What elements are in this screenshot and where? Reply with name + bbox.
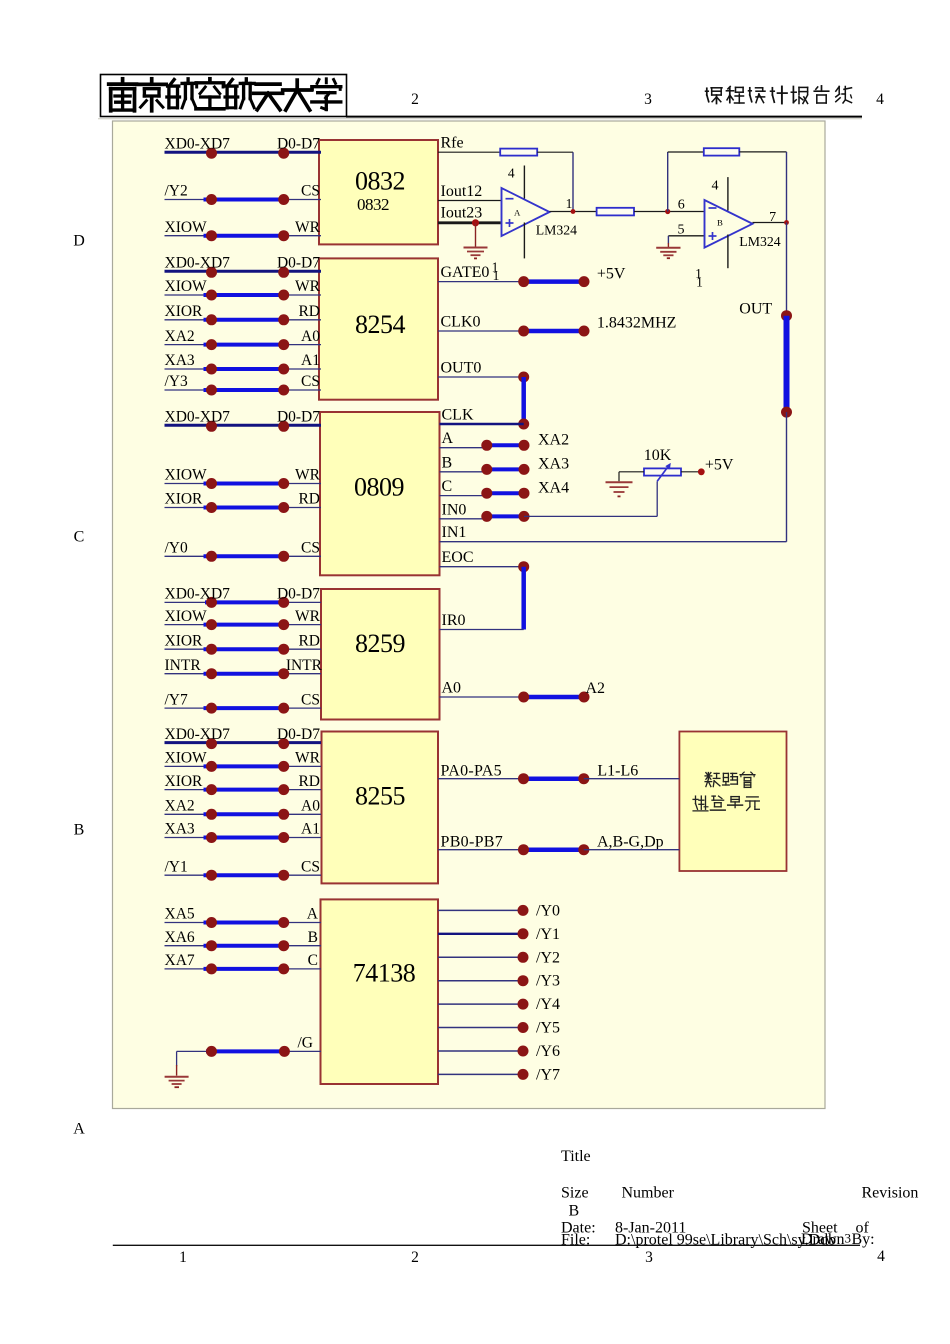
svg-text:3: 3 xyxy=(644,91,652,108)
svg-text:LM324: LM324 xyxy=(536,223,577,238)
grid column number 2 top xyxy=(411,91,419,108)
junction IN0 a xyxy=(481,511,492,522)
svg-text:WR: WR xyxy=(295,750,321,767)
grid row letter B xyxy=(74,822,85,839)
IC U6 74138 xyxy=(321,899,439,1084)
junction A0 a xyxy=(518,692,529,703)
net XIOR to U5 RD xyxy=(165,773,322,795)
pin 5 label U7B xyxy=(678,223,685,238)
pin Y0 of U6 to net /Y0 xyxy=(438,902,560,919)
svg-text:XD0-XD7: XD0-XD7 xyxy=(165,586,231,603)
net XA3 to U5 A1 xyxy=(165,821,322,843)
svg-text:A2: A2 xyxy=(586,680,606,697)
svg-text:/Y2: /Y2 xyxy=(536,949,560,966)
grid row letter D xyxy=(73,233,85,250)
svg-text:XIOW: XIOW xyxy=(165,278,208,295)
title block Drawn By xyxy=(801,1231,875,1249)
net label A,B-G,Dp xyxy=(597,833,664,850)
junction IN0 b xyxy=(519,511,530,522)
svg-text:/Y0: /Y0 xyxy=(165,540,189,557)
ground symbol GND1 xyxy=(464,248,488,259)
pin 7 output U7B xyxy=(753,222,787,224)
svg-text:D0-D7: D0-D7 xyxy=(277,409,320,426)
net XIOW to U1 WR xyxy=(165,219,322,241)
svg-text:A,B-G,Dp: A,B-G,Dp xyxy=(597,833,664,850)
svg-text:B: B xyxy=(569,1203,580,1220)
svg-text:C: C xyxy=(442,478,453,495)
wire CLK0 clock xyxy=(524,329,584,334)
net label L1-L6 xyxy=(597,763,638,780)
svg-text:XIOR: XIOR xyxy=(165,773,204,790)
net XA3 to U2 A1 xyxy=(165,352,322,374)
wire R2 to U7B minus xyxy=(634,211,705,213)
pin IN1 of U3 xyxy=(440,524,787,542)
junction PB a xyxy=(518,844,529,855)
svg-text:/Y3: /Y3 xyxy=(536,973,560,990)
pin Y3 of U6 to net /Y3 xyxy=(438,973,560,990)
grid column number 2 bottom xyxy=(411,1249,419,1266)
ground symbol GND2 xyxy=(656,248,680,258)
junction output A xyxy=(571,209,576,214)
pin CLK of U3 xyxy=(440,407,524,425)
wire PA link xyxy=(524,776,584,781)
svg-text:/Y0: /Y0 xyxy=(536,902,560,919)
junction OUT0 xyxy=(518,372,529,383)
wire R3 to OUT corner xyxy=(739,152,786,223)
wire R1 to feedback corner xyxy=(537,152,573,211)
svg-text:XA6: XA6 xyxy=(165,929,195,946)
svg-text:D0-D7: D0-D7 xyxy=(277,586,320,603)
junction +5V pot xyxy=(698,468,705,475)
svg-text:OUT0: OUT0 xyxy=(441,360,482,377)
svg-text:XA3: XA3 xyxy=(165,352,195,369)
power label +5V pot xyxy=(705,456,734,473)
pin 4 line U7A xyxy=(523,166,525,199)
svg-text:8254: 8254 xyxy=(355,310,406,339)
junction CLK xyxy=(518,419,529,430)
bus XD0-XD7 to U1 D0-D7 xyxy=(165,135,322,158)
svg-text:A0: A0 xyxy=(301,798,320,815)
junction output B xyxy=(784,220,789,225)
svg-text:1: 1 xyxy=(493,268,500,283)
IC U4 8259 xyxy=(321,589,440,720)
bus XD0-XD7 to U2 D0-D7 xyxy=(165,255,322,278)
wire OUT thick xyxy=(784,316,790,412)
svg-text:IN1: IN1 xyxy=(442,524,467,541)
net /Y1 to U5 CS xyxy=(165,858,322,880)
wire pot right to +5V xyxy=(681,471,701,473)
svg-text:XD0-XD7: XD0-XD7 xyxy=(165,726,231,743)
junction PA b xyxy=(578,773,589,784)
net XIOR to U2 RD xyxy=(165,303,322,325)
net XIOR to U3 RD xyxy=(165,491,322,513)
svg-text:B: B xyxy=(442,454,453,471)
svg-text:XIOW: XIOW xyxy=(165,467,208,484)
pin IN0 of U3 xyxy=(440,501,491,519)
svg-text:Iout12: Iout12 xyxy=(441,183,483,200)
svg-text:CS: CS xyxy=(301,858,320,875)
wire pin5 ground stem xyxy=(667,243,669,248)
svg-text:10K: 10K xyxy=(644,447,672,464)
op-amp U7A LM324 xyxy=(502,188,578,238)
svg-text:2: 2 xyxy=(411,1249,419,1266)
svg-text:CLK0: CLK0 xyxy=(441,314,481,331)
svg-text:CS: CS xyxy=(301,540,320,557)
wire PB link xyxy=(524,847,584,852)
wire IN0 to pot xyxy=(524,481,657,516)
svg-text:Revision: Revision xyxy=(862,1185,919,1202)
wire OUT to IN1 xyxy=(786,412,788,542)
svg-text:/Y3: /Y3 xyxy=(165,373,189,390)
wire EOC to IR0 xyxy=(521,567,526,630)
svg-text:XA2: XA2 xyxy=(165,798,195,815)
pin 4 label U7B xyxy=(712,179,719,194)
wire feedback B up xyxy=(668,152,704,212)
svg-text:4: 4 xyxy=(712,179,719,194)
svg-text:XA3: XA3 xyxy=(165,821,195,838)
sheet outer frame line xyxy=(98,118,862,120)
svg-text:CLK: CLK xyxy=(442,407,474,424)
svg-text:C: C xyxy=(308,952,318,969)
svg-text:8255: 8255 xyxy=(355,782,405,811)
svg-text:LM324: LM324 xyxy=(739,234,780,249)
title block Date xyxy=(561,1220,686,1237)
net label OUT xyxy=(739,301,772,318)
svg-text:+5V: +5V xyxy=(597,265,626,282)
svg-text:/G: /G xyxy=(298,1035,314,1052)
svg-text:GATE0: GATE0 xyxy=(441,264,490,281)
svg-text:EOC: EOC xyxy=(442,549,474,566)
pin 1 label U7A xyxy=(566,196,573,211)
svg-text:OUT: OUT xyxy=(739,301,772,318)
grid row letter A xyxy=(73,1121,85,1138)
net XA6 to U6 B xyxy=(165,929,322,951)
svg-text:1.8432MHZ: 1.8432MHZ xyxy=(597,315,677,332)
junction OUT top xyxy=(781,310,792,321)
svg-text:A1: A1 xyxy=(301,352,320,369)
svg-text:A: A xyxy=(73,1121,85,1138)
grid column number 3 bottom xyxy=(645,1249,653,1266)
wire IN0 link xyxy=(487,514,524,518)
junction CLK0 a xyxy=(518,326,529,337)
svg-text:XD0-XD7: XD0-XD7 xyxy=(165,255,231,272)
grid column number 4 top xyxy=(876,91,884,108)
pin 11 label U7B xyxy=(695,266,703,290)
pin 1 output U7A xyxy=(550,211,597,213)
header logo text 南京航空航天大学 xyxy=(109,79,341,111)
junction CLK0 b xyxy=(579,326,590,337)
svg-text:PA0-PA5: PA0-PA5 xyxy=(441,763,502,780)
svg-text:B: B xyxy=(308,929,318,946)
svg-text:D0-D7: D0-D7 xyxy=(277,255,320,272)
svg-text:Title: Title xyxy=(561,1148,591,1165)
svg-text:/Y5: /Y5 xyxy=(536,1020,560,1037)
svg-text:B: B xyxy=(717,217,723,227)
IC U2 8254 xyxy=(319,258,438,399)
wire PA to keypad xyxy=(584,778,680,780)
pin 4 label U7A xyxy=(508,166,515,181)
svg-text:CS: CS xyxy=(301,183,320,200)
pin A0 of U4 xyxy=(440,680,524,698)
wire OUT0 to CLK xyxy=(521,377,526,424)
pin Y6 of U6 to net /Y6 xyxy=(438,1043,560,1060)
wire GATE0 +5V xyxy=(524,279,584,284)
pin IR0 of U4 xyxy=(440,612,524,630)
svg-text:IN0: IN0 xyxy=(442,501,467,518)
pin B of U3 to net XA3 xyxy=(440,454,570,475)
svg-text:RD: RD xyxy=(298,632,320,649)
svg-text:XIOR: XIOR xyxy=(165,632,204,649)
pin 11 line U7A xyxy=(523,223,525,259)
pin C of U3 to net XA4 xyxy=(440,478,570,499)
net /Y7 to U4 CS xyxy=(165,691,322,713)
net XA5 to U6 A xyxy=(165,906,322,928)
title block Revision xyxy=(862,1185,919,1202)
svg-text:4: 4 xyxy=(877,1248,885,1265)
svg-text:XA7: XA7 xyxy=(165,952,195,969)
pin Iout23 of U1 xyxy=(438,204,501,223)
net /Y2 to U1 CS xyxy=(165,183,322,205)
net XA2 to U5 A0 xyxy=(165,798,322,820)
pin Rfe of U1 xyxy=(438,135,500,153)
svg-text:3: 3 xyxy=(645,1249,653,1266)
grid column number 3 top xyxy=(644,91,652,108)
svg-text:A: A xyxy=(442,430,454,447)
svg-text:XIOW: XIOW xyxy=(165,750,208,767)
IC U5 8255 xyxy=(322,732,439,884)
junction PA a xyxy=(518,773,529,784)
svg-text:XIOR: XIOR xyxy=(165,303,204,320)
svg-text:C: C xyxy=(74,529,85,546)
svg-text:XA2: XA2 xyxy=(165,328,195,345)
wire Iout23 to ground xyxy=(475,223,477,247)
junction GATE0 b xyxy=(579,276,590,287)
svg-text:RD: RD xyxy=(298,773,320,790)
potentiometer RP1 10K body xyxy=(644,468,681,475)
pin OUT0 of U2 xyxy=(438,360,524,378)
svg-text:2: 2 xyxy=(411,91,419,108)
pin Iout12 of U1 xyxy=(438,183,502,201)
svg-text:/Y1: /Y1 xyxy=(165,858,188,875)
title block B xyxy=(569,1203,580,1220)
svg-text:XA2: XA2 xyxy=(538,432,569,449)
svg-text:D0-D7: D0-D7 xyxy=(277,135,320,152)
svg-text:/Y1: /Y1 xyxy=(536,926,560,943)
net label 10K xyxy=(644,447,672,464)
wire output B down xyxy=(786,223,788,316)
svg-text:/Y2: /Y2 xyxy=(165,183,188,200)
net /G to U6 G enable xyxy=(177,1035,321,1057)
svg-text:/Y7: /Y7 xyxy=(536,1066,560,1083)
pin PA0-PA5 of U5 xyxy=(438,763,524,780)
net label 1.8432MHZ xyxy=(597,315,677,332)
svg-text:WR: WR xyxy=(295,219,321,236)
net XIOW to U2 WR xyxy=(165,278,322,300)
pin PB0-PB7 of U5 xyxy=(438,833,524,850)
svg-text:8259: 8259 xyxy=(355,629,405,658)
svg-text:6: 6 xyxy=(678,198,685,213)
net label A2 xyxy=(586,680,606,697)
junction Iout23 ground xyxy=(472,219,479,226)
pin Y5 of U6 to net /Y5 xyxy=(438,1020,560,1037)
svg-text:A0: A0 xyxy=(301,328,320,345)
junction node 6 xyxy=(665,209,670,214)
svg-text:RD: RD xyxy=(298,491,320,508)
net XIOR to U4 RD xyxy=(165,632,322,654)
svg-text:3: 3 xyxy=(845,1231,852,1246)
wire pot left to ground xyxy=(619,472,644,482)
net XIOW to U3 WR xyxy=(165,467,322,489)
svg-text:B: B xyxy=(74,822,85,839)
svg-text:CS: CS xyxy=(301,373,320,390)
pin CLK0 of U2 xyxy=(438,314,524,332)
ground symbol GND3 xyxy=(606,482,633,496)
pin GATE0 of U2 xyxy=(438,264,524,282)
pin 6 label U7B xyxy=(678,198,685,213)
bus XD0-XD7 to U4 D0-D7 xyxy=(165,586,322,608)
block 数码管键盘单元 xyxy=(679,732,786,872)
svg-text:7: 7 xyxy=(769,210,776,225)
svg-text:Iout23: Iout23 xyxy=(441,204,483,221)
junction GATE0 a xyxy=(518,276,529,287)
IC U1 0832 xyxy=(319,140,438,244)
svg-text:XIOW: XIOW xyxy=(165,608,208,625)
net XA2 to U2 A0 xyxy=(165,328,322,350)
svg-text:1: 1 xyxy=(179,1249,187,1266)
bus XD0-XD7 to U5 D0-D7 xyxy=(165,726,322,749)
title block File xyxy=(561,1232,836,1249)
bus XD0-XD7 to U3 D0-D7 xyxy=(165,409,322,432)
pin EOC of U3 xyxy=(440,549,524,567)
header rule xyxy=(346,116,862,118)
pin Y2 of U6 to net /Y2 xyxy=(438,949,560,966)
svg-text:XD0-XD7: XD0-XD7 xyxy=(165,409,231,426)
svg-text:0832: 0832 xyxy=(357,195,389,214)
grid row letter C xyxy=(74,529,85,546)
pin 11 line U7B xyxy=(727,235,729,269)
resistor R2 interstage xyxy=(597,208,634,216)
title block Title xyxy=(561,1148,591,1165)
net /Y0 to U3 CS xyxy=(165,540,322,562)
header logo box xyxy=(101,75,347,117)
svg-text:4: 4 xyxy=(508,166,515,181)
svg-text:+5V: +5V xyxy=(705,456,734,473)
svg-text:XA3: XA3 xyxy=(538,456,569,473)
potentiometer wiper arrow xyxy=(657,463,671,481)
svg-text:/Y4: /Y4 xyxy=(536,996,560,1013)
svg-text:L1-L6: L1-L6 xyxy=(597,763,638,780)
pin 7 label U7B xyxy=(769,210,776,225)
wire A0 link xyxy=(524,695,584,700)
svg-text:1: 1 xyxy=(566,196,573,211)
ground symbol GND4 xyxy=(165,1077,189,1087)
svg-text:PB0-PB7: PB0-PB7 xyxy=(441,833,504,850)
svg-text:0809: 0809 xyxy=(354,472,404,501)
svg-text:WR: WR xyxy=(295,608,321,625)
svg-text:XA5: XA5 xyxy=(165,906,195,923)
svg-text:Number: Number xyxy=(622,1185,675,1202)
net XA7 to U6 C xyxy=(165,952,322,974)
svg-text:4: 4 xyxy=(876,91,884,108)
pin Y4 of U6 to net /Y4 xyxy=(438,996,560,1013)
svg-text:Size: Size xyxy=(561,1185,589,1202)
wire PB to keypad xyxy=(584,849,680,851)
svg-text:WR: WR xyxy=(295,278,321,295)
svg-text:INTR: INTR xyxy=(165,657,202,674)
grid column number 4 bottom xyxy=(877,1248,885,1265)
power label +5V xyxy=(597,265,626,282)
svg-text:/Y6: /Y6 xyxy=(536,1043,560,1060)
svg-text:74138: 74138 xyxy=(353,959,416,988)
svg-text:1: 1 xyxy=(696,275,703,290)
junction A0 b xyxy=(579,692,590,703)
svg-text:0832: 0832 xyxy=(355,167,405,196)
IC U3 0809 xyxy=(320,412,440,575)
svg-text:CS: CS xyxy=(301,691,320,708)
svg-text:A: A xyxy=(514,207,521,217)
resistor R3 feedback B xyxy=(704,148,740,155)
pin Y1 of U6 to net /Y1 xyxy=(438,926,560,943)
header text 课程设计报告纸 xyxy=(706,86,852,104)
title block Sheet of xyxy=(802,1220,870,1237)
title block Number xyxy=(622,1185,675,1202)
pin A of U3 to net XA2 xyxy=(440,430,570,451)
svg-text:IR0: IR0 xyxy=(442,612,466,629)
wire to U7B plus xyxy=(668,236,704,244)
svg-text:INTR: INTR xyxy=(286,657,323,674)
svg-text:A: A xyxy=(307,906,319,923)
svg-text:Rfe: Rfe xyxy=(441,135,464,152)
net /Y3 to U2 CS xyxy=(165,373,322,395)
svg-text:D0-D7: D0-D7 xyxy=(277,726,320,743)
title block Size xyxy=(561,1185,589,1202)
svg-text:XD0-XD7: XD0-XD7 xyxy=(165,135,231,152)
svg-text:/Y7: /Y7 xyxy=(165,691,189,708)
net XIOW to U4 WR xyxy=(165,608,322,630)
wire to ground from /G xyxy=(176,1051,178,1075)
pin D0-D7 bus sub-label xyxy=(0,0,1,1)
net XIOW to U5 WR xyxy=(165,750,322,772)
svg-text:A0: A0 xyxy=(442,680,462,697)
grid column number 1 bottom xyxy=(179,1249,187,1266)
svg-text:RD: RD xyxy=(298,303,320,320)
resistor R1 feedback A xyxy=(500,149,537,156)
op-amp U7B LM324 xyxy=(705,200,781,249)
schematic sheet xyxy=(113,121,826,1109)
svg-text:XIOR: XIOR xyxy=(165,491,204,508)
junction EOC xyxy=(518,561,529,572)
svg-text:XIOW: XIOW xyxy=(165,219,208,236)
net INTR to U4 INTR xyxy=(165,657,323,679)
svg-text:WR: WR xyxy=(295,467,321,484)
svg-text:XA4: XA4 xyxy=(538,479,569,496)
pin 4 line U7B xyxy=(727,177,729,210)
junction PB b xyxy=(578,844,589,855)
sheet bottom rule xyxy=(113,1244,860,1246)
svg-text:D: D xyxy=(73,233,85,250)
svg-text:A1: A1 xyxy=(301,821,320,838)
pin Y7 of U6 to net /Y7 xyxy=(438,1066,560,1083)
junction OUT bottom xyxy=(781,407,792,418)
pin number 1 marks xyxy=(492,260,500,284)
